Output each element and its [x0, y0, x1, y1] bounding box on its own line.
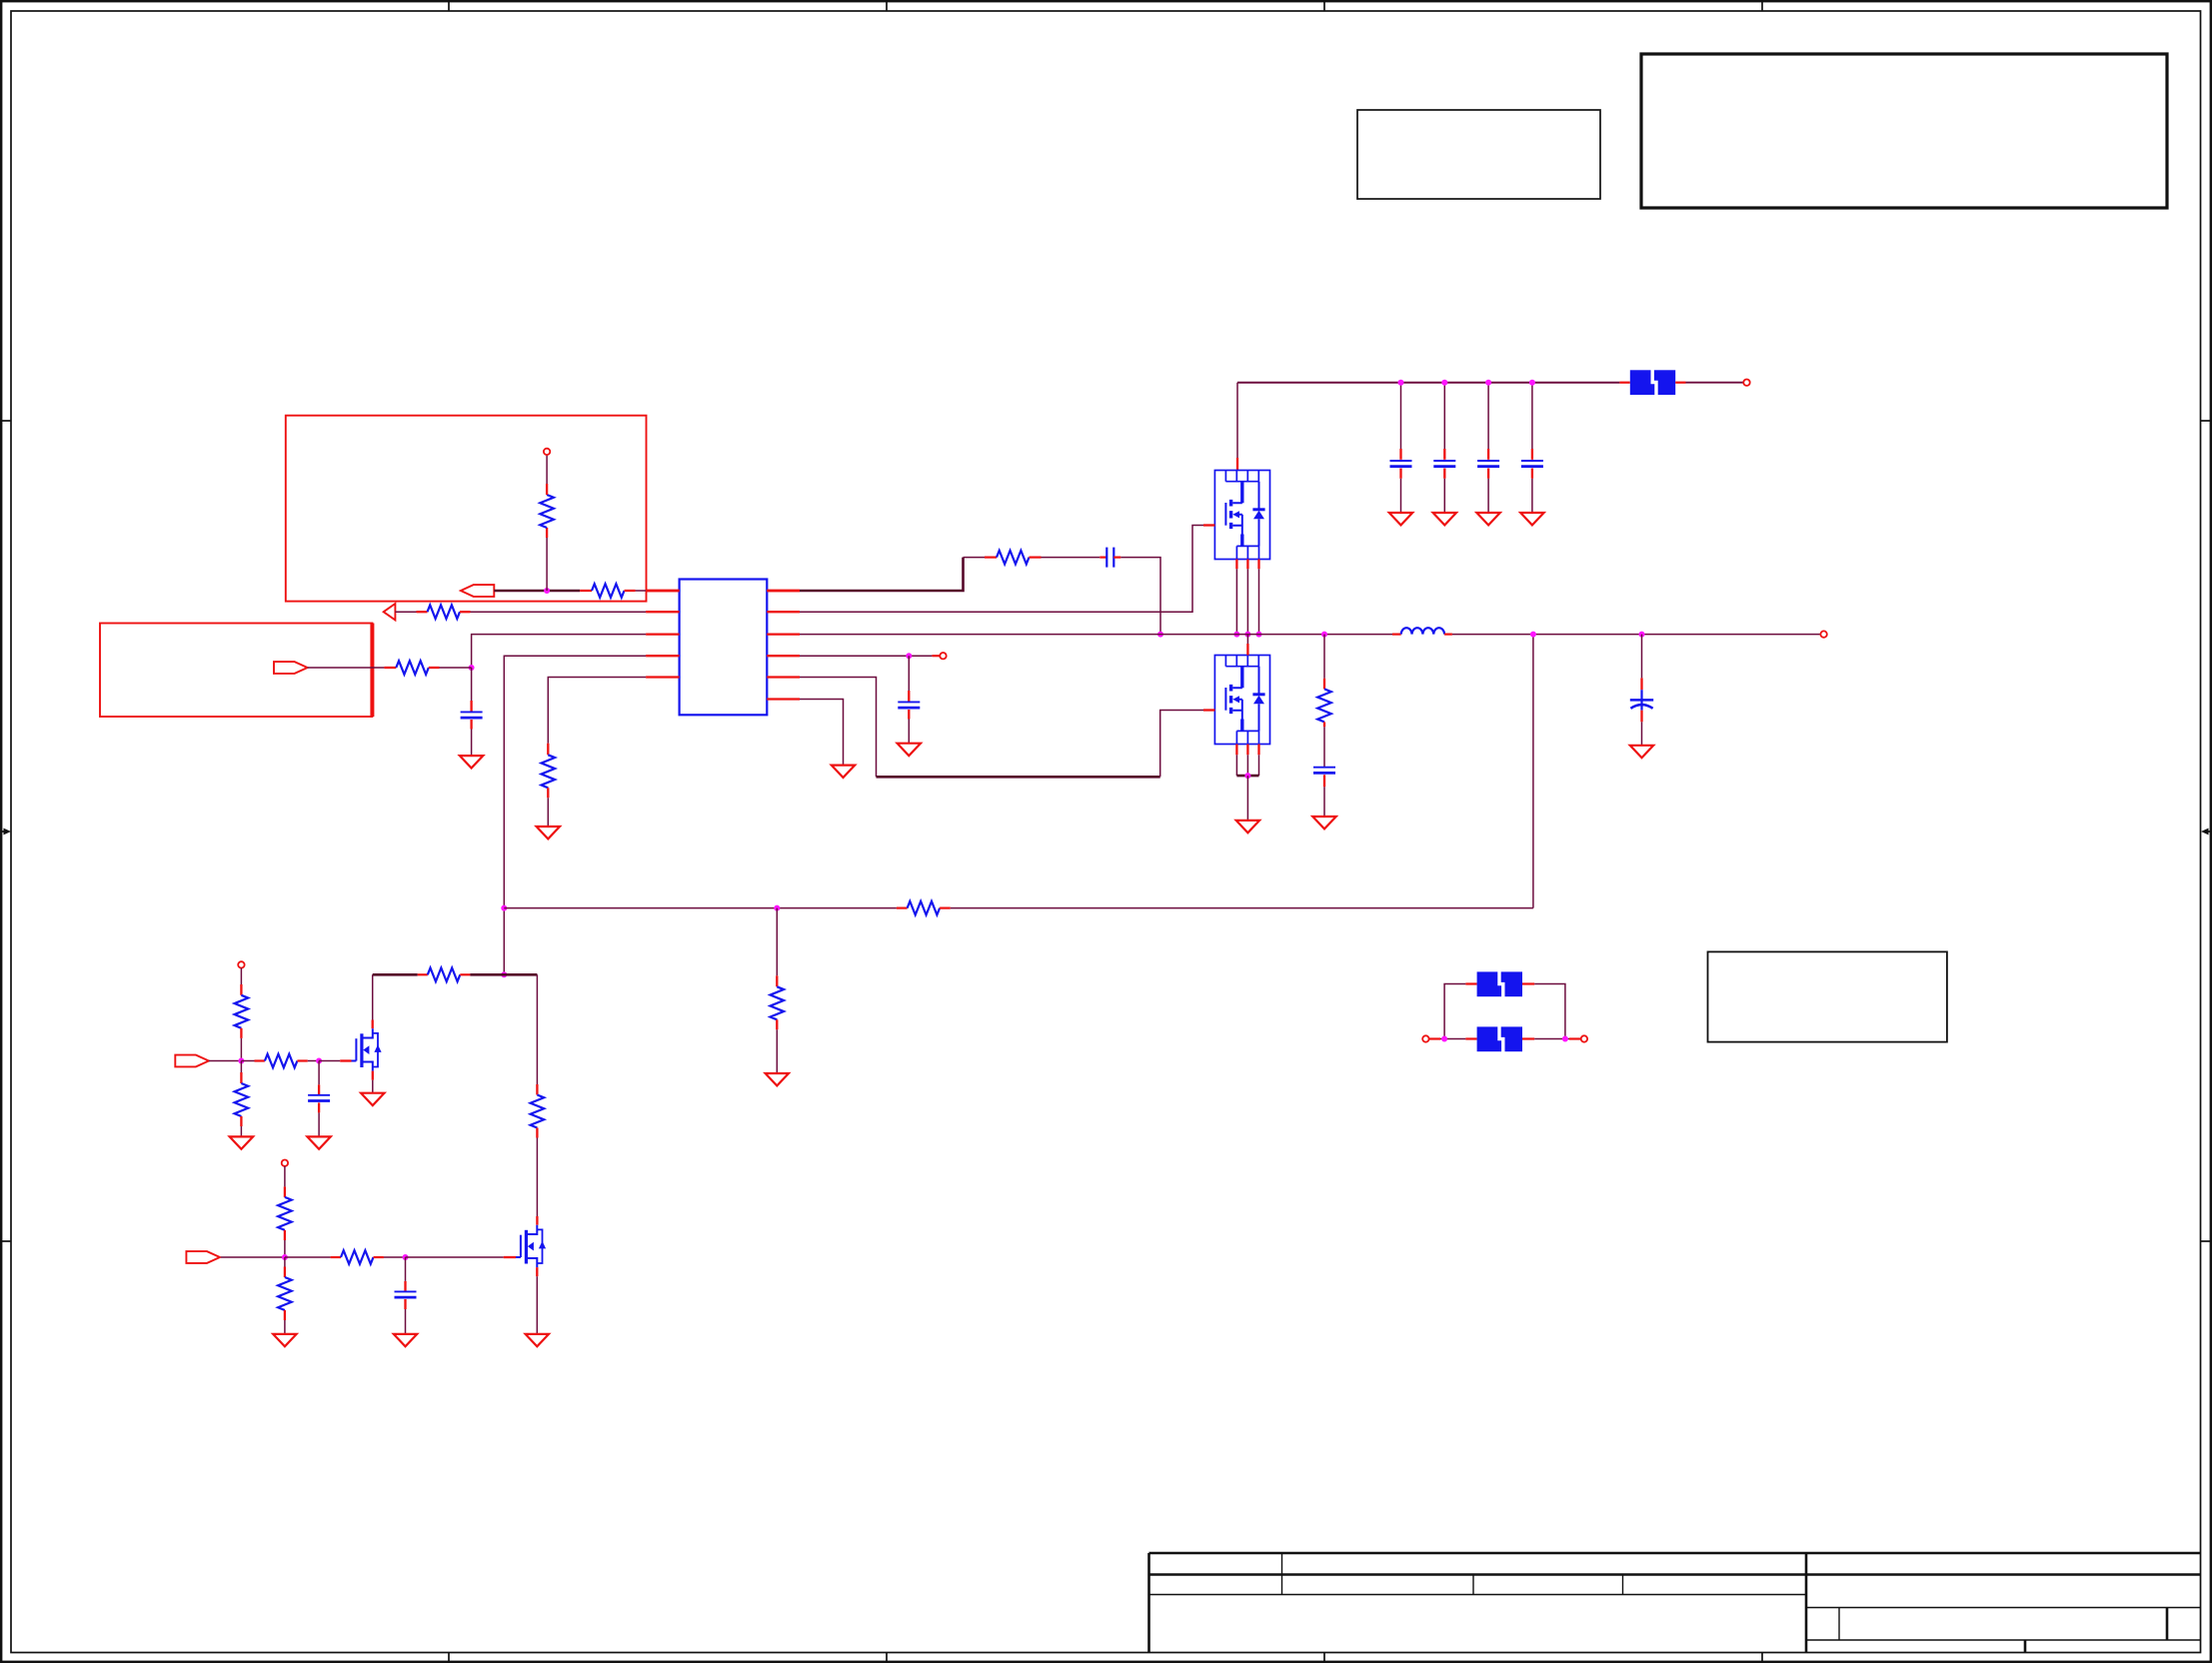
terminal A supply: [238, 961, 244, 967]
node FB line junction: [501, 905, 507, 911]
title block divider col 1: [1281, 1553, 1283, 1595]
fuse F2: [1477, 971, 1522, 997]
wire R12 to VOUT tap: [940, 906, 951, 908]
wire R7 to U1: [625, 590, 636, 592]
fuse F1: [1630, 370, 1675, 396]
wire F3 to right terminal: [1522, 1037, 1534, 1039]
wire VIN rail down to Q1 drain: [1236, 383, 1238, 458]
resistor R6 (snubber): [1317, 689, 1331, 722]
wire Q2 source to ground: [1246, 776, 1248, 821]
ground under C1: [1389, 513, 1412, 525]
frame zone tick right 1: [2201, 420, 2212, 422]
capacitor C4: [1521, 461, 1543, 467]
frame mid-right arrow: [2201, 829, 2212, 835]
wire FB divider to R13: [776, 908, 778, 976]
wire R6 to C6: [1323, 722, 1325, 727]
node A junction 1: [238, 1058, 244, 1064]
SW rail wire: [800, 634, 1392, 636]
U1 EN pin stub emphasis: [646, 590, 680, 593]
frame zone tick top 1: [448, 0, 450, 11]
frame zone tick top 3: [1323, 0, 1325, 11]
FB sense wire: [504, 907, 897, 909]
ground under C7: [1630, 746, 1653, 758]
resistor R17: [235, 1083, 249, 1116]
frame zone tick top 2: [886, 0, 888, 11]
wire terminal to R16: [240, 968, 242, 984]
ground under C10: [307, 1136, 330, 1148]
wire SW down to Q2 drain: [1246, 635, 1248, 644]
wire fuse bank right riser: [1534, 984, 1565, 1039]
title block outline top: [1149, 1552, 2201, 1555]
capacitor C7 (polarized output): [1630, 700, 1653, 710]
resistor R7: [592, 584, 625, 598]
wire R14 to corner thick: [460, 973, 470, 975]
controller IC U1 box: [680, 580, 768, 716]
wire box2 arrow to R10: [308, 667, 385, 669]
terminal fuse bank left: [1422, 1035, 1428, 1041]
wire terminal to F3: [1429, 1037, 1440, 1039]
ground under C8: [898, 744, 921, 756]
title block row line 3 left: [1149, 1594, 1807, 1596]
input port arrow A: [175, 1055, 209, 1067]
wire VOUT tap down: [1532, 635, 1534, 908]
spec box (mid right): [1708, 951, 1947, 1041]
Q2 source stubs: [1235, 745, 1237, 756]
wire R5 to C5: [1030, 556, 1042, 558]
frame zone tick bottom 2: [886, 1652, 888, 1663]
ground under Q4: [526, 1334, 549, 1346]
ground under C11: [394, 1334, 417, 1346]
ground under C4: [1520, 513, 1543, 525]
input port arrow B: [186, 1251, 220, 1263]
net connector triangle SYNC: [384, 604, 396, 620]
wire R9 to U1: [460, 611, 471, 613]
wire junction to R17: [240, 1061, 242, 1073]
frame zone tick left 2: [0, 1240, 11, 1242]
ground under C3: [1476, 513, 1499, 525]
node VIN junction 4: [1529, 380, 1535, 386]
title block size/docnum row bottom: [1806, 1639, 2200, 1641]
resistor R9: [428, 605, 461, 619]
ground under R20: [273, 1334, 296, 1346]
wire R21 to junction 2: [374, 1256, 384, 1258]
wire COMP to C8: [908, 656, 910, 691]
node FB divider junction: [774, 905, 780, 911]
wire VIN rail to C3: [1487, 383, 1489, 449]
inductor L1: [1401, 628, 1444, 634]
wire EN row thick: [494, 590, 580, 592]
wire F2 stub right: [1522, 982, 1534, 984]
wire R15 to Q4 drain: [536, 1128, 538, 1138]
ground under R17: [230, 1136, 253, 1148]
wire C2 to ground: [1443, 469, 1445, 479]
frame zone tick bottom 1: [448, 1652, 450, 1663]
wire Q3 drain riser: [372, 974, 374, 1019]
Q2 gate stub: [1203, 709, 1214, 711]
wire VIN rail to fuse stub left: [1619, 382, 1629, 384]
wire C8 to ground: [908, 710, 910, 720]
node Q2 source junction: [1244, 773, 1250, 779]
fuse F3: [1477, 1026, 1522, 1052]
wire U1 pin5 left and down: [548, 678, 646, 744]
wire Q4 source to ground: [536, 1267, 538, 1276]
wire R17 to ground: [240, 1116, 242, 1126]
wire C4 to ground: [1531, 469, 1533, 479]
COMP terminal: [940, 653, 946, 659]
capacitor C3: [1477, 461, 1499, 467]
resistor R12 (FB series): [908, 901, 941, 915]
capacitor C11: [395, 1291, 417, 1297]
wire EN red stub to R7: [580, 590, 592, 592]
wire R19 to row B: [284, 1230, 286, 1240]
ground under C6: [1312, 817, 1335, 829]
resistor R16: [235, 995, 249, 1028]
ground under C9: [460, 756, 483, 768]
capacitor C6 (snubber): [1313, 768, 1335, 774]
wire VIN rail to C4: [1531, 383, 1533, 449]
hierarchical block box 2 (red): [100, 624, 372, 718]
Q1 source stubs down to SW rail: [1235, 560, 1237, 570]
transistor Q3 (small NMOS): [352, 1028, 382, 1070]
node VIN junction 2: [1441, 380, 1447, 386]
wire SW inductor stub left: [1392, 633, 1401, 635]
node VIN junction 3: [1485, 380, 1491, 386]
resistor R15: [531, 1095, 545, 1128]
wire SYNC to R9: [395, 611, 416, 613]
wire junction to R21: [285, 1256, 331, 1258]
wire Q3 source to ground: [372, 1071, 374, 1080]
wire red stub to R14: [418, 973, 428, 975]
capacitor C8: [898, 702, 920, 708]
wire port A to junction: [209, 1060, 242, 1062]
EN supply terminal: [544, 449, 550, 455]
U1 left pin stubs: [646, 591, 680, 678]
wire junction to R20: [284, 1257, 286, 1267]
node VIN junction 1: [1398, 380, 1404, 386]
wire U1 pin3 left: [472, 635, 646, 668]
resistor R13 (FB lower): [771, 986, 785, 1019]
wire U1 COMP row: [800, 655, 932, 657]
wire Q1 gate to U1 pin (LG route): [800, 526, 1203, 613]
frame zone tick bottom 4: [1761, 1652, 1763, 1663]
wire VIN rail to C2: [1443, 383, 1445, 449]
U1 right pin stubs: [767, 591, 800, 700]
VIN terminal: [1743, 380, 1749, 386]
title block center divider (thick): [1805, 1553, 1808, 1652]
wire C7 to ground: [1640, 711, 1642, 723]
capacitor C5 (boot): [1106, 548, 1113, 568]
resistor R10: [396, 661, 429, 675]
wire SW to R6: [1323, 635, 1325, 679]
wire junction 2 to Q4 gate: [406, 1256, 504, 1258]
Q1 gate stub: [1203, 524, 1214, 526]
frame zone tick bottom 3: [1323, 1652, 1325, 1663]
terminal fuse bank right: [1581, 1035, 1587, 1041]
ground under Q2: [1236, 821, 1259, 832]
title block size cell divider: [1838, 1608, 1840, 1641]
frame zone tick top 4: [1761, 0, 1763, 11]
capacitor C9: [461, 712, 483, 718]
wire junction to R18: [241, 1060, 254, 1062]
wire C1 to ground: [1399, 469, 1401, 479]
transistor Q4 (small NMOS): [516, 1225, 546, 1267]
node SW snubber junction: [1321, 632, 1327, 638]
title block divider col 3: [1622, 1575, 1624, 1595]
terminal B supply: [282, 1160, 288, 1166]
wire fuse to VIN terminal: [1686, 382, 1744, 384]
node A junction 2: [316, 1058, 322, 1064]
wire C3 to ground: [1487, 469, 1489, 479]
wire C11 to ground: [404, 1299, 406, 1309]
input port arrow (box2): [274, 662, 308, 674]
wire terminal to R19: [284, 1166, 286, 1187]
wire fuse stub right: [1675, 382, 1685, 384]
node fuse bank right junction: [1562, 1036, 1568, 1042]
node VOUT tap junction: [1530, 632, 1536, 638]
resistor R11 (pulldown): [542, 755, 556, 788]
wire R20 to ground: [284, 1310, 286, 1320]
capacitor C1: [1390, 461, 1412, 467]
wire R18 to junction 2: [297, 1059, 307, 1061]
wire boot to R5: [964, 557, 986, 559]
node fuse bank left junction: [1441, 1036, 1447, 1042]
resistor R18: [265, 1054, 298, 1068]
wire junction 2 to C10: [318, 1061, 320, 1085]
wire VIN rail to C1: [1400, 383, 1402, 449]
wire C10 to ground: [318, 1102, 320, 1112]
title block rev cell divider (thick): [2166, 1608, 2169, 1641]
resistor R19: [278, 1197, 292, 1230]
wire junction to C9: [471, 668, 473, 701]
wire discharge row left thick: [373, 973, 418, 976]
wire R13 to ground: [776, 1019, 778, 1029]
node pin3 RC junction: [469, 665, 475, 671]
node VOUT cap junction: [1639, 632, 1645, 638]
ground under R11: [537, 827, 560, 838]
title block left edge: [1147, 1553, 1150, 1652]
title block size/docnum row top: [1806, 1607, 2200, 1609]
node divider top junction: [501, 971, 507, 977]
wire corner down to R15: [536, 974, 538, 1084]
wire junction 2 to C11: [405, 1257, 407, 1281]
title block divider col 2: [1472, 1575, 1474, 1595]
node EN junction: [544, 588, 550, 594]
wire R8 to terminal: [546, 484, 548, 495]
title block row line 2: [1149, 1573, 2201, 1576]
wire fuse bank left riser: [1444, 984, 1465, 1039]
wire VOUT to C7: [1641, 635, 1643, 679]
ground on PGND: [832, 766, 855, 778]
resistor R21: [341, 1250, 374, 1264]
VOUT terminal: [1820, 631, 1826, 637]
U1 BOOT pin stub emphasis: [767, 590, 800, 593]
capacitor C10: [308, 1095, 330, 1101]
VOUT rail wire: [1452, 634, 1821, 636]
output port arrow EN: [461, 585, 494, 597]
wire U1 PGND row: [800, 700, 844, 766]
wire EN junction up to R8: [546, 538, 548, 591]
resistor R14: [428, 968, 461, 982]
ground under C2: [1433, 513, 1456, 525]
node COMP junction: [906, 653, 912, 659]
frame zone tick left 1: [0, 420, 11, 422]
wire U1 FB pin left and down: [504, 656, 646, 974]
frame mid-left arrow: [0, 829, 11, 835]
resistor R8 (pullup): [540, 495, 554, 528]
wire C9 to ground: [470, 720, 472, 730]
revision table box (thin): [1357, 110, 1600, 199]
resistor R20: [278, 1277, 292, 1310]
node B junction 2: [403, 1254, 409, 1260]
wire R11 to ground: [547, 788, 549, 798]
wire R16 to row A: [240, 1028, 242, 1038]
wire R10 to junction: [429, 667, 440, 669]
title block date/sheet divider (thick): [2024, 1640, 2027, 1652]
capacitor C2: [1433, 461, 1455, 467]
wire U1 BOOT thick segment: [800, 558, 964, 591]
transistor Q2 (low-side MOSFET module): [1214, 656, 1269, 745]
wire junction 2 to Q3 gate: [319, 1060, 340, 1062]
wire port B to junction: [221, 1256, 285, 1258]
transistor Q1 (high-side MOSFET module): [1214, 471, 1269, 560]
ground under Q3: [361, 1093, 384, 1105]
Q2 source joining bar: [1236, 775, 1258, 778]
notes box (thick): [1641, 54, 2167, 208]
frame zone tick right 2: [2201, 1240, 2212, 1242]
resistor R5 (boot): [997, 551, 1030, 565]
node SW junctions under Q1: [1233, 632, 1239, 638]
node B junction 1: [282, 1254, 288, 1260]
wire F2 stub left: [1465, 982, 1476, 984]
node boot-SW junction: [1157, 632, 1163, 638]
wire U1 to Q2 gate (LG2 route): [800, 678, 877, 778]
VIN rail wire: [1237, 382, 1619, 384]
ground under R13: [766, 1073, 789, 1085]
wire C5 to SW: [1113, 556, 1120, 558]
hierarchical block box 1 (red): [286, 416, 647, 602]
wire inductor stub right: [1444, 633, 1452, 635]
wire C6 to ground: [1323, 775, 1325, 787]
